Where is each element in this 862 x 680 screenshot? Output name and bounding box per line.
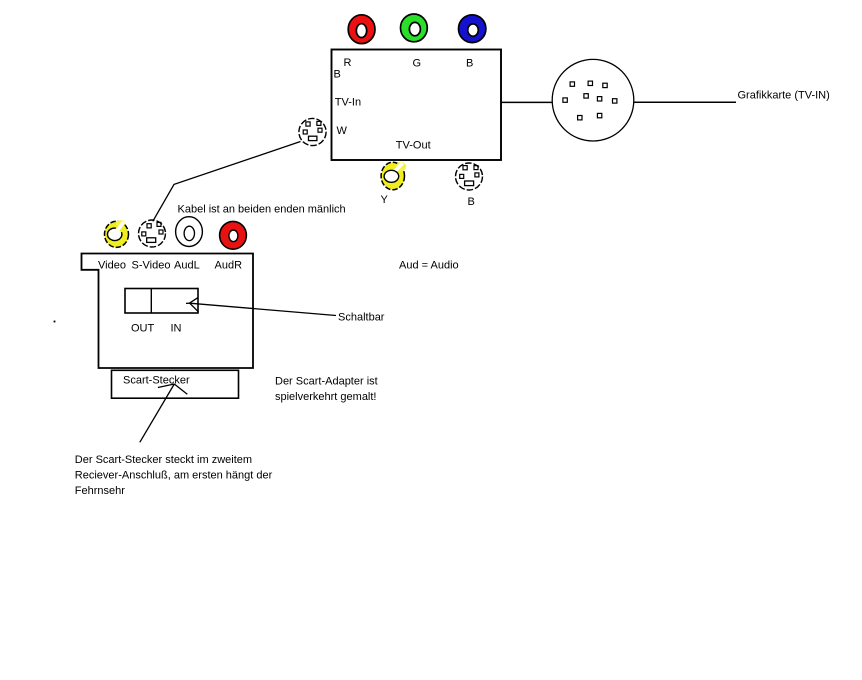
svg-text:IN: IN (171, 323, 182, 335)
svg-text:Y: Y (381, 194, 389, 206)
svg-text:OUT: OUT (131, 323, 155, 335)
svg-text:TV-In: TV-In (335, 96, 361, 108)
svg-text:S-Video: S-Video (132, 260, 171, 272)
svg-text:Fehrnsehr: Fehrnsehr (75, 485, 125, 497)
svg-text:AudL: AudL (174, 260, 200, 272)
svg-text:Video: Video (98, 260, 126, 272)
svg-text:R: R (344, 57, 352, 69)
svg-text:Kabel ist an beiden enden mänl: Kabel ist an beiden enden mänlich (178, 204, 346, 216)
svg-text:Scart-Stecker: Scart-Stecker (123, 374, 190, 386)
svg-text:Schaltbar: Schaltbar (338, 311, 385, 323)
svg-text:TV-Out: TV-Out (396, 139, 431, 151)
svg-text:Aud = Audio: Aud = Audio (399, 260, 459, 272)
svg-text:AudR: AudR (215, 260, 243, 272)
svg-text:Der Scart-Adapter ist: Der Scart-Adapter ist (275, 375, 378, 387)
svg-text:B: B (468, 196, 475, 208)
svg-text:B: B (334, 68, 341, 80)
svg-text:spielverkehrt gemalt!: spielverkehrt gemalt! (275, 391, 377, 403)
svg-text:B: B (466, 57, 473, 69)
svg-text:Reciever-Anschluß, am ersten h: Reciever-Anschluß, am ersten hängt der (75, 470, 273, 482)
svg-text:Der Scart-Stecker steckt im zw: Der Scart-Stecker steckt im zweitem (75, 454, 252, 466)
svg-text:W: W (337, 125, 348, 137)
svg-text:G: G (413, 58, 422, 70)
svg-text:Grafikkarte (TV-IN): Grafikkarte (TV-IN) (738, 90, 830, 102)
